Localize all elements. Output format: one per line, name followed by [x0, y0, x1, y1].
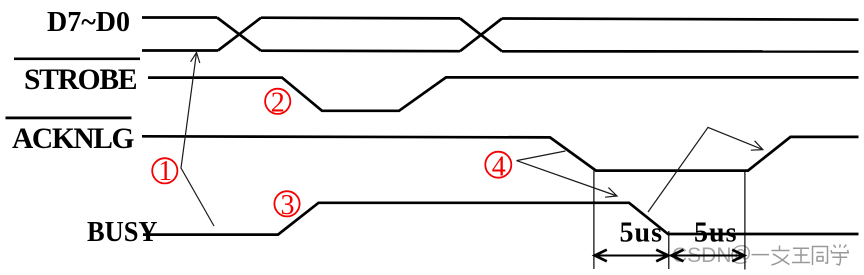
- wire ACKNLG signal: [142, 136, 859, 170]
- wire data crossover 1 rising: [218, 18, 261, 51]
- wire data low rail left: [142, 49, 218, 52]
- svg-text:5us: 5us: [620, 217, 663, 248]
- node marker 1 (red circle): [152, 89, 511, 217]
- wire data low rail middle: [261, 49, 460, 52]
- svg-text:1: 1: [158, 156, 172, 187]
- wire data crossover 2 falling: [460, 18, 502, 51]
- svg-text:ACKNLG: ACKNLG: [12, 123, 135, 155]
- pointer 1 arrowhead: [191, 53, 200, 64]
- 支: [772, 246, 790, 266]
- 学: [831, 244, 848, 265]
- wire data crossover 1 falling: [217, 18, 261, 51]
- thin pointer arrows: [181, 53, 763, 227]
- pointer bent arrowhead: [751, 141, 763, 150]
- 一: [752, 254, 770, 256]
- pointer busy-fall to acknlg-rise bent line: [648, 127, 763, 212]
- 同: [813, 247, 828, 266]
- wire data low rail right: [502, 50, 859, 53]
- wire data high rail left: [142, 16, 217, 19]
- wire BUSY signal: [143, 203, 859, 235]
- STROBE overline: [14, 58, 140, 61]
- dimension arrow 5us second: [672, 255, 743, 257]
- svg-text:D7~D0: D7~D0: [47, 7, 130, 38]
- svg-text:4: 4: [492, 152, 506, 183]
- node t2 vertical: [668, 231, 670, 269]
- wire data crossover 2 rising: [460, 19, 502, 52]
- wire data high rail middle: [261, 16, 460, 19]
- pointer 4 lower ray: [517, 161, 618, 196]
- watermark CJK 一支王同学: [752, 244, 849, 265]
- node t3 vertical: [744, 172, 746, 270]
- node marker 4: [485, 152, 511, 178]
- node marker 2: [265, 89, 290, 114]
- wire STROBE signal: [148, 77, 859, 110]
- svg-text:2: 2: [271, 88, 285, 119]
- pointer 4 upper ray: [517, 151, 566, 161]
- wires: data bus D7~D0: [142, 18, 859, 235]
- wire data high rail right: [502, 19, 859, 20]
- svg-text:STROBE: STROBE: [24, 64, 138, 96]
- svg-text:3: 3: [281, 190, 295, 221]
- node marker 3: [274, 191, 299, 216]
- guide verticals: [594, 171, 745, 270]
- svg-text:BUSY: BUSY: [87, 217, 158, 248]
- ACKNLG overline: [6, 117, 132, 120]
- watermark CSDN: [672, 241, 752, 267]
- dimension arrow 5us first: [595, 250, 744, 262]
- pointer 1 line (BUSY to data bus): [181, 53, 214, 227]
- pointer 4 arrowhead: [605, 188, 617, 198]
- 王: [792, 248, 810, 262]
- node t1 vertical: [593, 171, 595, 269]
